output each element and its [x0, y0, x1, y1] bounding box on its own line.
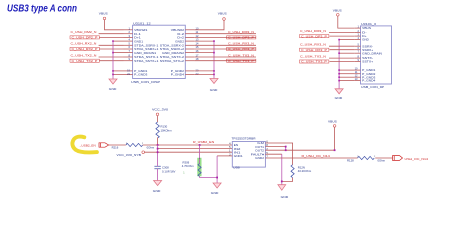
svg-text:GND: GND — [281, 195, 290, 199]
svg-text:USB3 type A conn: USB3 type A conn — [7, 4, 77, 15]
wire SSTX+2 — [194, 60, 256, 62]
svg-text:VCC_3V0: VCC_3V0 — [152, 108, 168, 112]
svg-text:C_USH_RX2_N: C_USH_RX2_N — [71, 42, 97, 46]
wire SSTX+1 — [99, 60, 123, 62]
svg-text:GND: GND — [362, 38, 369, 42]
chip pin numbers right — [266, 141, 268, 159]
svg-text:C_USH_TX2_N: C_USH_TX2_N — [71, 53, 97, 57]
wire VBUS1 — [105, 20, 124, 30]
resistor R309 — [199, 145, 201, 164]
wire VBUS right conn — [338, 16, 355, 28]
wire SSRX+ right conn — [330, 49, 355, 51]
svg-text:R_USH_OC_N14: R_USH_OC_N14 — [302, 154, 331, 158]
svg-text:U3101_3: U3101_3 — [361, 22, 376, 26]
svg-text:GND: GND — [210, 88, 219, 92]
wire ILM — [265, 143, 292, 165]
svg-text:C_USH_RX2_P: C_USH_RX2_P — [72, 47, 98, 51]
svg-text:C_USH_RX3_P: C_USH_RX3_P — [228, 47, 254, 51]
svg-text:GND2: GND2 — [255, 156, 264, 160]
svg-text:USB_CON_DISP: USB_CON_DISP — [131, 80, 160, 84]
resistor R216 — [126, 143, 143, 146]
svg-text:VBUS: VBUS — [362, 26, 371, 30]
wire FAULT row to gnd — [265, 153, 281, 155]
ground right conn — [335, 89, 343, 94]
wire port to R216 — [109, 144, 126, 146]
svg-text:SSTDA_STX+2: SSTDA_STX+2 — [160, 59, 185, 63]
gnd bus left connector left side — [112, 41, 114, 79]
wire SSRX+1 — [99, 48, 123, 50]
ground right — [278, 185, 286, 191]
junction R309 top — [199, 144, 201, 146]
wire OUT1 / OUT2 tie — [265, 146, 285, 148]
svg-text:STDA_SSTX+1: STDA_SSTX+1 — [134, 59, 159, 63]
svg-text:C_USH_DM3_N: C_USH_DM3_N — [300, 29, 326, 33]
svg-text:0Ohm: 0Ohm — [378, 158, 386, 162]
svg-text:TPS2553TDRBR: TPS2553TDRBR — [232, 137, 257, 141]
ground mid — [210, 79, 218, 84]
svg-text:GND_DRAIN: GND_DRAIN — [362, 51, 382, 55]
wire R309 to gnd rail — [200, 177, 218, 178]
wire D-2 — [194, 33, 256, 35]
resistor R130 — [156, 122, 159, 138]
output port USH_OC_N14 — [393, 156, 403, 161]
green highlight — [197, 158, 201, 176]
wire D+2 — [194, 36, 256, 38]
svg-text:GND: GND — [109, 87, 118, 91]
svg-text:C_USH_RX3_N: C_USH_RX3_N — [228, 42, 254, 46]
svg-text:10KOhm: 10KOhm — [161, 129, 173, 133]
U3101_12 right pin numbers — [196, 26, 199, 76]
wire SSRX+2 — [194, 48, 256, 50]
svg-text:VBUS: VBUS — [328, 120, 337, 124]
ground left — [109, 79, 117, 84]
svg-text:R216: R216 — [112, 146, 119, 150]
ground chip — [213, 183, 221, 188]
svg-text:VBUS: VBUS — [99, 11, 108, 15]
chip pin numbers left — [229, 143, 231, 157]
net port C_USH_RX3_P b — [300, 48, 329, 51]
svg-text:C_USH_TX3_N: C_USH_TX3_N — [228, 53, 254, 57]
U3101_12 right pin stubs — [185, 30, 194, 75]
svg-text:_USB2_EN: _USB2_EN — [79, 144, 96, 148]
svg-text:R_USB2_EN: R_USB2_EN — [193, 140, 214, 144]
wire D+ right conn — [330, 35, 355, 37]
svg-text:C_USH_TX2_P: C_USH_TX2_P — [72, 59, 98, 63]
net port C_USH_TX3_P — [227, 59, 256, 62]
svg-text:C_USH_TX3_P: C_USH_TX3_P — [228, 59, 254, 63]
wire IN2 — [158, 148, 233, 150]
svg-text:C_USH_RX3_P: C_USH_RX3_P — [301, 48, 327, 52]
wire D-1 — [99, 33, 124, 35]
net port C_USH_TX2_P — [70, 59, 99, 62]
svg-text:C_USH_DM2_N: C_USH_DM2_N — [71, 30, 97, 34]
wire FAULT to port — [265, 157, 392, 159]
svg-text:0.1UF/16V: 0.1UF/16V — [162, 170, 176, 174]
svg-text:GND: GND — [153, 189, 162, 193]
svg-text:GND: GND — [211, 191, 220, 195]
svg-text:R128: R128 — [347, 158, 354, 162]
gnd bus right connector — [338, 40, 340, 89]
svg-text:USB_CON_9P: USB_CON_9P — [361, 85, 384, 89]
U3101_12 right pin names — [160, 28, 185, 77]
wire SSTX+ right conn — [330, 61, 355, 63]
junction — [157, 144, 159, 146]
U3101_3 pin stubs — [355, 28, 361, 81]
svg-text:SSTX+: SSTX+ — [362, 60, 373, 64]
svg-text:VBUS: VBUS — [333, 8, 342, 12]
net port C_USH_DP3_P b — [300, 35, 329, 38]
svg-text:C_USH_RX3_N: C_USH_RX3_N — [300, 43, 326, 47]
U3101_3 pin numbers — [355, 25, 360, 82]
net port C_USH_DP3_P — [227, 36, 256, 39]
resistor R12N — [291, 165, 294, 178]
capacitor C308 — [154, 166, 160, 168]
U3101_12 left pin names — [134, 28, 159, 77]
wire SSRX-1 — [99, 44, 124, 46]
U3101_3 pin names — [362, 26, 382, 82]
svg-text:4.7KOhm: 4.7KOhm — [182, 164, 194, 168]
svg-text:U38: U38 — [233, 166, 240, 170]
wire D+1 — [99, 36, 123, 38]
net port C_USH_TX3_P b — [300, 60, 329, 63]
svg-text:C_USH_TX3_P: C_USH_TX3_P — [301, 60, 327, 64]
svg-text:C_USH_DP3_P: C_USH_DP3_P — [301, 34, 327, 38]
wire D- right conn — [329, 32, 355, 34]
U3101_12 left pin numbers — [127, 26, 130, 76]
wire VBUS2 — [194, 20, 224, 30]
U3101_12 left pin stubs — [124, 30, 133, 75]
svg-text:VCC_3V0_SYB: VCC_3V0_SYB — [117, 153, 141, 157]
ground C308 — [154, 181, 162, 186]
svg-text:USH_OC_N14: USH_OC_N14 — [405, 157, 429, 161]
svg-text:0Ohm: 0Ohm — [147, 145, 155, 149]
net port C_USH_RX2_P — [70, 47, 99, 50]
svg-text:40.2KOhm: 40.2KOhm — [298, 169, 312, 173]
wire R216 to chip EN — [143, 144, 233, 146]
net port C_USH_DP2_P — [70, 36, 99, 39]
input port _USB2_EN — [99, 143, 109, 147]
svg-text:C_USH_TX3_N: C_USH_TX3_N — [300, 54, 326, 58]
vertical tie EN/IN2/IN + cap — [157, 145, 159, 164]
svg-text:GND: GND — [335, 96, 344, 100]
wire SSRX- right conn — [329, 45, 355, 47]
svg-text:VBUS: VBUS — [218, 11, 227, 15]
resistor R128 — [358, 156, 375, 159]
svg-text:C_USH_DM3_N: C_USH_DM3_N — [228, 30, 254, 34]
wire SSTX- right conn — [329, 57, 355, 59]
yellow highlighter mark — [72, 137, 97, 153]
wire VCC_3V0_SYB to IN — [144, 151, 232, 153]
wire R130 to EN wire — [157, 137, 159, 145]
svg-text:GND1: GND1 — [234, 154, 243, 158]
wire SSTX-1 — [99, 56, 124, 58]
wire SSTX-2 — [194, 56, 256, 58]
svg-text:P_GND3: P_GND3 — [134, 73, 148, 77]
wire GND1 — [217, 155, 232, 157]
svg-text:C_USH_DP3_P: C_USH_DP3_P — [228, 36, 254, 40]
svg-text:C_USH_DP2_P: C_USH_DP2_P — [72, 36, 98, 40]
gnd bus left connector right side — [213, 41, 215, 78]
svg-text:P_GND4: P_GND4 — [362, 79, 376, 83]
net port C_USH_RX3_P — [227, 47, 256, 50]
svg-text:P_GND4: P_GND4 — [171, 73, 185, 77]
wire SSRX-2 — [194, 44, 256, 46]
